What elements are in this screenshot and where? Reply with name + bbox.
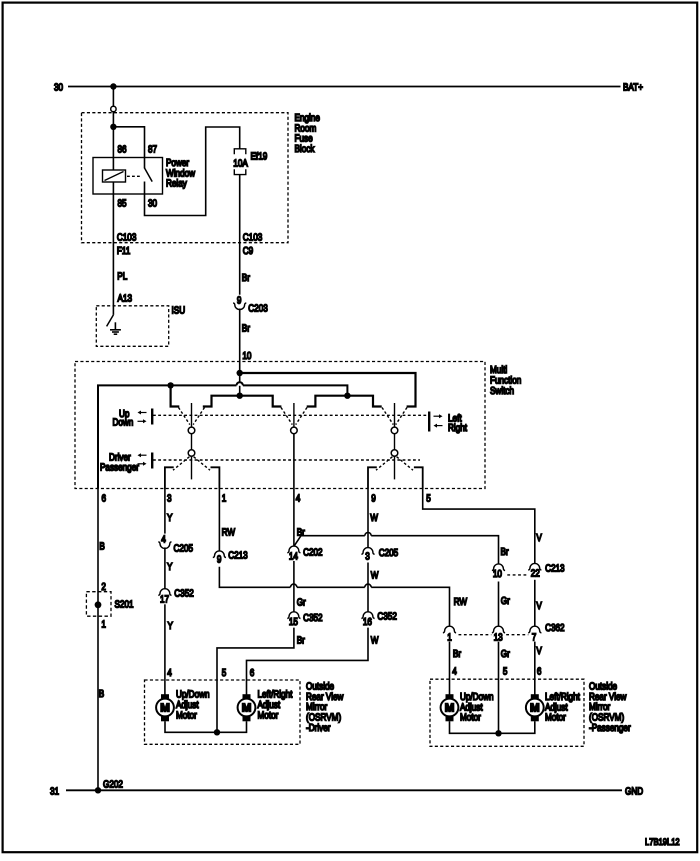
driver/passenger selector dashed line — [153, 459, 420, 461]
wire bus to fuse block — [112, 87, 114, 107]
svg-text:L7B19L12: L7B19L12 — [645, 837, 680, 848]
OSRVM driver box — [145, 680, 344, 744]
wire Br to driver motor pin 5 — [217, 628, 294, 733]
svg-text:F11: F11 — [117, 246, 131, 257]
wire RW to corner down — [371, 587, 449, 626]
svg-text:M: M — [242, 703, 252, 715]
svg-text:85: 85 — [118, 199, 127, 210]
svg-text:C352: C352 — [174, 588, 194, 599]
svg-text:Right: Right — [448, 423, 467, 434]
hop RW over W wire — [365, 584, 371, 587]
svg-text:10: 10 — [242, 351, 251, 362]
connector C103 F11 — [117, 232, 137, 257]
wire W mid — [367, 563, 369, 613]
svg-text:M: M — [160, 703, 170, 715]
wire passenger motor common rail — [450, 721, 535, 733]
svg-text:17: 17 — [160, 594, 169, 605]
wire RW to passenger C362 pin 1 — [219, 567, 290, 588]
connector C352 pin 16 — [361, 612, 397, 628]
svg-text:S201: S201 — [115, 600, 134, 611]
svg-text:C213: C213 — [545, 564, 565, 575]
wire Gr mid — [293, 561, 295, 612]
svg-text:Gr: Gr — [501, 596, 511, 607]
svg-text:4: 4 — [161, 534, 166, 545]
svg-text:V: V — [536, 646, 542, 657]
up/down terminal bar — [151, 409, 153, 425]
svg-text:C352: C352 — [303, 613, 323, 624]
bus 31 GND bottom — [50, 786, 643, 797]
S1 output contacts pins 3 and 1 — [165, 467, 220, 488]
wire pin4 Br upper — [293, 489, 295, 547]
motor up/down adjust passenger — [441, 692, 494, 724]
connector C352 pin 15 — [287, 612, 323, 628]
svg-text:30: 30 — [148, 199, 157, 210]
svg-text:10A: 10A — [233, 158, 248, 169]
Engine Room Fuse Block box — [82, 113, 321, 243]
wire pin1 RW upper — [218, 489, 220, 552]
hop Br over W wire — [365, 533, 371, 536]
svg-text:G202: G202 — [103, 780, 123, 791]
OSRVM passenger box — [430, 679, 631, 746]
connector C362 pins 1 13 7 — [443, 623, 565, 643]
svg-text:3: 3 — [167, 493, 172, 504]
svg-text:Motor: Motor — [176, 710, 197, 721]
splice S201 — [86, 592, 133, 617]
svg-text:6: 6 — [537, 666, 542, 677]
MFS pin labels — [102, 493, 432, 504]
hop RW over Gr wire — [291, 584, 297, 587]
svg-text:Motor: Motor — [258, 710, 279, 721]
label Right with arrow — [434, 423, 468, 434]
wire supply rail to S3 right contact — [240, 373, 416, 407]
svg-text:30: 30 — [54, 83, 63, 94]
svg-text:3: 3 — [365, 552, 370, 563]
node driver common — [214, 729, 220, 735]
relay contact — [127, 158, 152, 182]
relay Power Window Relay — [93, 145, 196, 210]
switch S3 left/right — [376, 403, 413, 479]
svg-text:C352: C352 — [377, 612, 397, 623]
label Down with arrow — [113, 417, 147, 428]
svg-text:-Passenger: -Passenger — [589, 723, 631, 734]
svg-text:Switch: Switch — [490, 386, 514, 397]
svg-text:M: M — [445, 703, 455, 715]
S1 left contact — [171, 385, 180, 406]
connector C213 pins 10 and 22 — [492, 563, 565, 580]
svg-text:A13: A13 — [118, 293, 133, 304]
svg-text:Motor: Motor — [460, 713, 481, 724]
connector C202 pin 14 — [287, 546, 323, 562]
svg-text:1: 1 — [101, 620, 106, 631]
wire Br to passenger motor pin 4 — [449, 642, 451, 695]
svg-text:Br: Br — [242, 324, 251, 335]
fuse Ef19 10A — [233, 149, 267, 175]
svg-text:Y: Y — [167, 513, 173, 524]
svg-text:V: V — [536, 601, 542, 612]
connector C205 pin 3 — [361, 548, 398, 563]
node G202 ground splice — [95, 780, 123, 794]
connector C103 C9 — [243, 232, 263, 257]
svg-text:BAT+: BAT+ — [623, 83, 643, 94]
wire driver motor common rail — [165, 721, 247, 732]
node supply lower — [237, 393, 243, 399]
svg-text:PL: PL — [117, 272, 127, 283]
wire V to passenger motor pin 6 — [534, 642, 536, 695]
connector C352 pin 17 — [158, 588, 194, 605]
svg-text:C9: C9 — [243, 246, 254, 257]
wire RW continues — [297, 586, 365, 588]
svg-text:W: W — [371, 636, 379, 647]
wire pin3 Y upper — [164, 489, 166, 534]
motor up/down adjust driver — [156, 690, 209, 722]
svg-text:Relay: Relay — [166, 179, 188, 190]
svg-text:1: 1 — [222, 493, 227, 504]
svg-text:87: 87 — [148, 145, 157, 156]
svg-text:C362: C362 — [545, 623, 565, 634]
connector C205 pin 4 — [158, 534, 193, 554]
label Driver with arrow — [109, 453, 147, 464]
wire pin5 V to passenger — [423, 489, 535, 564]
wire W to driver motor pin 6 — [247, 628, 369, 695]
svg-text:16: 16 — [363, 617, 372, 628]
svg-text:C103: C103 — [117, 232, 137, 243]
svg-text:15: 15 — [289, 617, 298, 628]
svg-text:4: 4 — [452, 666, 457, 677]
label Left with arrow — [434, 414, 462, 425]
svg-text:GND: GND — [625, 786, 643, 797]
svg-text:Br: Br — [242, 273, 251, 284]
svg-text:9: 9 — [237, 295, 242, 306]
switch blade in ISU — [107, 315, 114, 327]
svg-text:Y: Y — [168, 621, 174, 632]
wire pin6 B to ground bus — [97, 489, 99, 791]
svg-text:C203: C203 — [248, 304, 268, 315]
svg-text:M: M — [530, 703, 540, 715]
node return rail joins S2/S3 rail — [344, 393, 350, 399]
wire rail S2 right to S3 left — [307, 396, 382, 407]
svg-text:Gr: Gr — [501, 649, 511, 660]
svg-text:86: 86 — [118, 145, 127, 156]
left/right terminal bar — [428, 412, 430, 432]
wire V right mid — [534, 580, 536, 627]
svg-text:C205: C205 — [379, 548, 399, 559]
node passenger common — [495, 730, 501, 736]
svg-text:C205: C205 — [174, 544, 194, 555]
svg-text:31: 31 — [50, 786, 59, 797]
wire pin9 W upper — [367, 489, 369, 548]
svg-text:4: 4 — [167, 668, 172, 679]
wire pin10 node down — [239, 373, 241, 382]
svg-text:W: W — [371, 571, 379, 582]
wire C203 to MFS pin 10 — [239, 309, 241, 374]
svg-text:6: 6 — [102, 493, 107, 504]
svg-text:Br: Br — [453, 649, 462, 660]
wire Br branch continues down to C213 pin 10 — [371, 536, 498, 564]
svg-text:4: 4 — [296, 493, 301, 504]
svg-text:W: W — [370, 513, 378, 524]
connector C203 pin 9 — [233, 295, 268, 314]
svg-text:-Driver: -Driver — [306, 723, 331, 734]
wire node to relay pin 87 — [113, 127, 144, 158]
svg-text:14: 14 — [289, 552, 298, 563]
up/down selector dashed line — [153, 414, 429, 416]
svg-text:9: 9 — [217, 554, 222, 565]
Multi Function Switch box — [75, 362, 521, 489]
svg-text:Ef19: Ef19 — [251, 151, 268, 162]
svg-text:B: B — [99, 542, 105, 553]
svg-text:V: V — [536, 533, 542, 544]
wire Br branch to passenger — [301, 535, 365, 537]
wire relay pin 30 to fuse — [145, 127, 240, 216]
switch S1 up/down driver — [173, 403, 210, 479]
svg-text:6: 6 — [250, 668, 255, 679]
wire return rail to pin 6 — [98, 385, 237, 488]
svg-text:ISU: ISU — [172, 306, 186, 317]
svg-text:C103: C103 — [243, 232, 263, 243]
wire Gr to passenger motor pin 5 — [498, 642, 500, 734]
connector C213 pin 9 — [213, 550, 248, 565]
svg-text:5: 5 — [503, 666, 508, 677]
S3 output contacts pins 9 and 5 — [368, 467, 423, 488]
wire Gr right mid — [498, 582, 500, 627]
driver/passenger terminal bar — [151, 453, 153, 469]
wire into fuse block — [112, 112, 114, 170]
connector open circle — [111, 106, 116, 111]
wire return rail right segment — [243, 385, 348, 395]
svg-text:Gr: Gr — [297, 598, 307, 609]
svg-text:Motor: Motor — [545, 713, 566, 724]
wire hop over pin10 drop — [237, 382, 243, 385]
svg-text:C213: C213 — [228, 550, 248, 561]
bus 30 BAT+ top — [54, 83, 643, 94]
svg-text:Br: Br — [297, 635, 306, 646]
ISU box — [96, 306, 185, 347]
label Passenger with arrow — [100, 462, 147, 474]
switch S2 driver/passenger select — [281, 403, 307, 489]
wire Y mid — [164, 547, 166, 589]
svg-text:22: 22 — [531, 568, 540, 579]
svg-text:Br: Br — [501, 547, 510, 558]
svg-text:9: 9 — [371, 493, 376, 504]
svg-text:10: 10 — [493, 569, 502, 580]
svg-text:Passenger: Passenger — [100, 462, 139, 473]
svg-text:B: B — [99, 689, 105, 700]
node S1 left contact branch — [167, 382, 173, 388]
wire coil pin 85 down — [112, 182, 114, 315]
wire Br branch diagonal to C202 — [294, 536, 301, 546]
svg-text:RW: RW — [222, 527, 236, 538]
svg-text:Block: Block — [295, 144, 316, 155]
wire Y lower to driver motor — [164, 604, 166, 694]
svg-text:C202: C202 — [303, 547, 323, 558]
motor left/right adjust driver — [238, 690, 293, 722]
wire supply rail S1 right to S2 left — [203, 396, 282, 407]
relay coil — [103, 170, 126, 182]
motor left/right adjust passenger — [526, 692, 580, 724]
svg-text:RW: RW — [454, 597, 468, 608]
svg-text:Down: Down — [113, 417, 134, 428]
node relay feed split — [110, 124, 116, 130]
svg-text:Y: Y — [167, 562, 173, 573]
node supply pin 10 — [237, 370, 243, 376]
svg-text:5: 5 — [426, 493, 431, 504]
label Up with arrow — [119, 409, 147, 420]
svg-text:5: 5 — [222, 668, 227, 679]
ground — [110, 322, 121, 334]
node on bus at relay feed — [110, 83, 116, 89]
wire fuse down — [239, 175, 241, 295]
